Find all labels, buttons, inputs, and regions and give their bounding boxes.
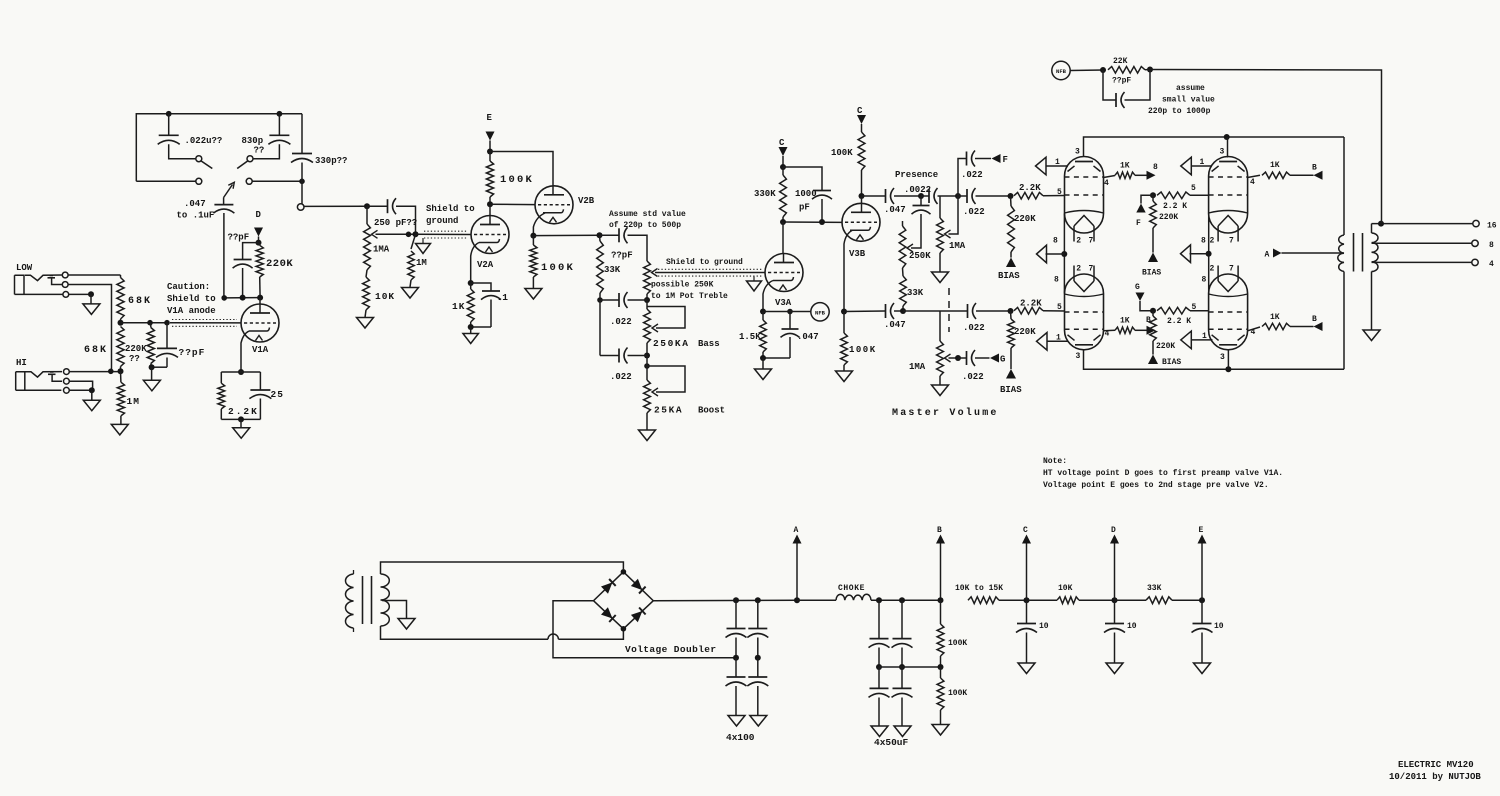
capacitor .047 (lower coupling): [885, 304, 887, 318]
heater arrow (right): [1181, 245, 1191, 263]
capacitor 1000pF: [783, 167, 822, 191]
ground (V1A cathode): [240, 419, 242, 427]
pot 250K (presence): [902, 221, 904, 226]
capacitor ??pF (treble): [600, 234, 620, 236]
svg-text:LOW: LOW: [16, 263, 33, 273]
svg-text:B: B: [937, 526, 942, 535]
svg-text:V2B: V2B: [578, 196, 595, 206]
svg-text:1: 1: [1200, 158, 1205, 167]
wire cathode box bottom: [221, 418, 260, 420]
wire V3B anode to PI: [862, 195, 886, 197]
pot 250KA Bass: [646, 300, 648, 309]
svg-text:5: 5: [1192, 303, 1197, 312]
svg-text:.022: .022: [961, 170, 983, 180]
ground (220K/??pF): [151, 367, 153, 380]
wire cathode to NFB: [763, 311, 811, 313]
capacitor 4x50uF c: [878, 667, 880, 688]
wire cathode box bottom + ground: [471, 326, 491, 328]
resistor 2.2K (V1A cathode): [221, 371, 260, 373]
transformer PT secondary: [381, 574, 390, 626]
capacitor .047 (V3A cathode): [789, 312, 791, 330]
svg-text:2.2K: 2.2K: [228, 406, 259, 417]
capacitor .022 (lower out): [967, 304, 969, 318]
resistor 220K (lower middle): [1152, 311, 1154, 316]
node V1A grid row junction: [118, 320, 124, 326]
svg-text:7: 7: [1229, 237, 1234, 246]
choke: [797, 599, 836, 601]
diode D2 (upper right): [631, 579, 642, 590]
input jack LOW: [15, 263, 69, 297]
svg-text:pF: pF: [799, 203, 810, 213]
triode V3B: [842, 196, 880, 259]
svg-text:1K: 1K: [452, 301, 465, 312]
resistor 1M: [120, 371, 122, 382]
frame right edge / OT primary: [1343, 137, 1345, 235]
node V1 coupling (open circle): [297, 204, 304, 211]
wire V2B out: [533, 234, 599, 236]
svg-text:.047: .047: [884, 320, 906, 330]
svg-text:250K: 250K: [909, 251, 931, 261]
svg-text:5: 5: [1191, 184, 1196, 193]
triode V2A: [471, 204, 509, 270]
resistor 1K (V7 screen): [1248, 327, 1260, 331]
capacitor ??pF (input): [166, 323, 168, 349]
wire LOW tip to 68K: [68, 274, 120, 276]
resistor 10K to 15K: [968, 597, 999, 604]
node bass bottom: [646, 343, 648, 356]
svg-text:1MA: 1MA: [909, 362, 926, 372]
svg-text:.022: .022: [962, 372, 984, 382]
net B arrow (V5 screen): [1147, 326, 1156, 335]
svg-text:100K: 100K: [948, 689, 967, 698]
ground (upper 1MA): [939, 253, 941, 272]
resistor 100K (divider upper): [940, 600, 942, 624]
svg-text:7: 7: [1089, 237, 1094, 246]
svg-text:220K: 220K: [1014, 327, 1036, 337]
svg-text:250KA: 250KA: [653, 338, 690, 349]
resistor 1K (V5 screen): [1104, 329, 1116, 332]
frame anode bus top: [1084, 137, 1345, 157]
node 33K/treble bottom: [597, 297, 603, 303]
svg-text:Bass: Bass: [698, 339, 720, 349]
svg-text:V1A anode: V1A anode: [167, 306, 216, 316]
svg-text:830p: 830p: [242, 136, 264, 146]
svg-text:F: F: [1003, 155, 1008, 165]
power tube V6 (upper right): [1201, 137, 1248, 246]
shield dots (V3A grid): [658, 268, 762, 270]
svg-text:D: D: [256, 210, 262, 220]
svg-text:.022: .022: [610, 317, 632, 327]
ground (E cap): [1194, 663, 1211, 674]
svg-text:68K: 68K: [84, 345, 108, 356]
capacitor 4x50uF b: [901, 600, 903, 638]
resistor 33K (slope): [599, 235, 602, 241]
svg-text:small value: small value: [1162, 96, 1215, 105]
svg-text:16: 16: [1487, 222, 1497, 231]
svg-text:1: 1: [1055, 158, 1060, 167]
capacitor ??pF (V1A anode bypass): [243, 243, 259, 260]
node V2A anode: [487, 201, 493, 207]
pot 25KA Boost: [646, 356, 648, 381]
bridge rectifier: [594, 569, 654, 632]
wire HI ring+sleeve to ground: [69, 381, 92, 390]
node lower middle junction: [1150, 308, 1156, 314]
resistor 2.2K (lower grid stopper): [1014, 307, 1043, 314]
resistor 100K (V3B anode): [858, 132, 865, 170]
svg-text:B: B: [1146, 316, 1151, 325]
svg-text:220K: 220K: [1156, 342, 1175, 351]
svg-text:1000: 1000: [795, 189, 817, 199]
ground (C cap): [1018, 663, 1035, 674]
svg-text:G: G: [1000, 355, 1005, 365]
svg-text:10/2011 by NUTJOB: 10/2011 by NUTJOB: [1389, 772, 1481, 782]
svg-text:V1A: V1A: [252, 345, 269, 355]
svg-text:1K: 1K: [1270, 161, 1280, 170]
wire PT top to bridge: [381, 562, 624, 574]
resistor 2.2K (lower right grid): [1157, 307, 1190, 314]
ground (divider): [932, 725, 949, 736]
svg-text:4: 4: [1104, 179, 1109, 188]
frame anode bus bottom: [1084, 350, 1345, 369]
net B arrow (V6 screen): [1314, 171, 1323, 180]
svg-text:??pF: ??pF: [179, 347, 206, 358]
net D node: [1079, 599, 1115, 601]
capacitor 4x100 a: [735, 600, 737, 628]
capacitor 10 (C node): [1026, 600, 1028, 623]
svg-text:1K: 1K: [1270, 313, 1280, 322]
node lower gang: [955, 355, 961, 361]
heater link left column: [1063, 214, 1065, 294]
wire top rail of switch network: [136, 114, 302, 182]
ground (lower 1MA): [939, 376, 941, 385]
power tube V5 (lower left): [1054, 265, 1104, 362]
OT secondary: [1371, 224, 1373, 233]
svg-text:4: 4: [1251, 328, 1256, 337]
ground (1M grid leak): [402, 288, 419, 299]
wire V2B cathode: [533, 213, 545, 236]
resistor 2.2K (upper right grid): [1157, 192, 1190, 199]
capacitor 25 (V1A cathode bypass): [259, 372, 261, 390]
svg-text:10: 10: [1039, 622, 1049, 631]
pin 1 arrow (V4): [1036, 157, 1047, 175]
svg-text:8: 8: [1201, 236, 1206, 245]
svg-text:5: 5: [1057, 188, 1062, 197]
wire V2A anode to V2B grid: [490, 203, 535, 205]
triode V3A: [765, 254, 803, 309]
svg-text:Shield to: Shield to: [426, 204, 475, 214]
net B arrow (V7 screen): [1314, 322, 1323, 331]
node 4x50 midpoint: [876, 664, 882, 670]
svg-text:4: 4: [1105, 330, 1110, 339]
svg-text:.022: .022: [963, 323, 985, 333]
switch contact 2 (upper): [247, 156, 253, 162]
power tube V7 (lower right): [1202, 265, 1248, 370]
resistor 2.2K (upper grid stopper): [1014, 192, 1043, 199]
svg-text:330p??: 330p??: [315, 156, 347, 166]
pot 1MA (master volume upper): [939, 196, 941, 218]
node V3B anode: [859, 193, 865, 199]
capacitor .022 (to G): [958, 357, 967, 359]
svg-text:220K: 220K: [1159, 213, 1178, 222]
svg-text:CHOKE: CHOKE: [838, 584, 865, 593]
resistor 100K (V2B cathode): [532, 236, 534, 245]
wire PT bottom bus: [381, 626, 549, 639]
wire LOW ring to HI row: [68, 285, 111, 372]
svg-text:33K: 33K: [604, 265, 621, 275]
svg-text:C: C: [1023, 526, 1028, 535]
svg-text:A: A: [794, 526, 799, 535]
svg-text:3: 3: [1220, 148, 1225, 157]
triode V2B: [535, 186, 595, 224]
svg-text:100K: 100K: [948, 639, 967, 648]
wire V1A anode row: [224, 297, 260, 299]
ground (4x50uF): [871, 726, 888, 737]
resistor 100K (V2A anode): [489, 152, 491, 162]
svg-text:2: 2: [1076, 265, 1081, 274]
svg-text:22K: 22K: [1113, 57, 1128, 66]
PT core: [362, 576, 364, 624]
svg-text:A: A: [1265, 251, 1270, 260]
svg-text:1M: 1M: [127, 396, 140, 407]
wire V2A grid: [416, 233, 472, 235]
svg-text:10: 10: [1214, 622, 1224, 631]
svg-text:to 1M Pot Treble: to 1M Pot Treble: [651, 292, 728, 301]
svg-text:ELECTRIC MV120: ELECTRIC MV120: [1398, 760, 1474, 770]
svg-text:33K: 33K: [907, 288, 924, 298]
capacitor 4x50uF d: [901, 667, 903, 688]
OT core: [1353, 233, 1355, 272]
svg-text:.0022: .0022: [904, 185, 931, 195]
capacitor .0022: [921, 195, 929, 197]
net G arrow: [990, 354, 999, 363]
svg-text:3: 3: [1220, 353, 1225, 362]
svg-text:4: 4: [1489, 260, 1494, 269]
svg-text:220K: 220K: [1014, 214, 1036, 224]
svg-text:4x50uF: 4x50uF: [874, 737, 909, 748]
wire 33K leg down: [599, 300, 601, 356]
capacitor 4x100 d: [757, 658, 759, 677]
wire HI tip to grid row: [69, 371, 120, 373]
capacitor .1 (V2A cathode bypass): [471, 283, 491, 291]
net 8 arrow (V4 screen): [1147, 171, 1156, 180]
wire V2A cathode: [471, 243, 479, 284]
resistor 330K: [782, 167, 784, 175]
resistor 10K: [1027, 599, 1058, 601]
svg-text:Note:: Note:: [1043, 457, 1067, 466]
ground (volume tail): [357, 318, 374, 329]
svg-text:3: 3: [1076, 352, 1081, 361]
svg-text:8: 8: [1202, 276, 1207, 285]
capacitor .022 (upper out): [958, 195, 967, 197]
diode D3 (lower left): [601, 607, 613, 618]
capacitor 330p??: [301, 114, 303, 154]
capacitor .022 (bass): [600, 299, 619, 301]
wire lower switch rail right: [252, 180, 302, 182]
resistor 1.5K: [762, 312, 764, 321]
svg-text:8: 8: [1153, 163, 1158, 172]
svg-text:.022u??: .022u??: [185, 136, 223, 146]
ground (OT secondary): [1363, 330, 1380, 341]
node presence tap: [918, 193, 924, 199]
svg-text:1MA: 1MA: [949, 241, 966, 251]
PT centre tap ground: [382, 601, 407, 619]
svg-text:NFB: NFB: [815, 310, 826, 317]
capacitor 10 (E node): [1201, 600, 1203, 623]
ground (boost pot): [646, 413, 648, 430]
node lower presence chain: [900, 308, 906, 314]
svg-text:25: 25: [271, 389, 284, 400]
resistor 220K (lower bias feed): [1010, 311, 1013, 319]
svg-text:B: B: [1312, 315, 1317, 324]
capacitor 250pF?? (bright cap): [367, 205, 388, 207]
resistor 220K ??: [150, 323, 152, 328]
svg-text:100K: 100K: [849, 345, 877, 355]
wire E node to V2B anode: [490, 152, 553, 186]
svg-text:??pF: ??pF: [1112, 77, 1131, 86]
svg-text:33K: 33K: [1147, 584, 1162, 593]
svg-text:V3A: V3A: [775, 298, 792, 308]
node lower grid junction: [1008, 308, 1014, 314]
input jack HI: [16, 358, 70, 393]
svg-text:V2A: V2A: [477, 260, 494, 270]
wire B+ bus: [653, 599, 797, 602]
svg-text:2.2K: 2.2K: [1020, 299, 1042, 309]
svg-text:E: E: [487, 113, 493, 123]
capacitor 4x100 c: [735, 658, 737, 677]
svg-text:7: 7: [1089, 265, 1094, 274]
svg-text:.047: .047: [884, 205, 906, 215]
svg-text:2: 2: [1210, 237, 1215, 246]
svg-text:ground: ground: [426, 216, 458, 226]
resistor 1M (V2A grid leak): [411, 234, 416, 249]
svg-text:.1: .1: [497, 292, 509, 303]
svg-text:1M: 1M: [416, 258, 427, 268]
svg-text:E: E: [1199, 526, 1204, 535]
svg-text:Presence: Presence: [895, 170, 938, 180]
svg-text:possible 250K: possible 250K: [651, 281, 714, 290]
svg-text:Shield to: Shield to: [167, 294, 216, 304]
svg-text:Assume std value: Assume std value: [609, 210, 686, 219]
wire V1A cathode: [241, 331, 249, 372]
node V2A grid: [413, 231, 419, 237]
capacitor 4x100 b: [757, 600, 759, 628]
diode D4 (lower right): [631, 611, 643, 622]
svg-text:8: 8: [1053, 236, 1058, 245]
capacitor .047 to .1uF (wiper): [223, 198, 225, 205]
svg-text:7: 7: [1229, 265, 1234, 274]
ground (D cap): [1106, 663, 1123, 674]
triode V1A: [241, 298, 279, 355]
svg-text:??pF: ??pF: [611, 251, 633, 261]
svg-text:??pF: ??pF: [228, 233, 250, 243]
svg-text:C: C: [779, 138, 785, 148]
node upper gang: [955, 193, 961, 199]
svg-text:.047: .047: [184, 199, 206, 209]
wire coupling node to volume pot: [304, 205, 367, 207]
resistor 68K (lower): [117, 327, 124, 367]
node cathode junction: [238, 369, 244, 375]
svg-text:100K: 100K: [831, 148, 853, 158]
shield dots (V1A grid): [172, 319, 237, 321]
ground (LOW jack): [90, 294, 92, 304]
resistor 100K (V3B cathode): [843, 312, 845, 334]
svg-text:4: 4: [1250, 178, 1255, 187]
svg-text:BIAS: BIAS: [998, 271, 1020, 281]
svg-text:25KA: 25KA: [654, 405, 683, 416]
capacitor 830p??: [278, 114, 280, 136]
svg-text:Boost: Boost: [698, 406, 725, 416]
svg-text:10: 10: [1127, 622, 1137, 631]
pin 1 arrow (V7): [1181, 331, 1192, 349]
svg-text:.047: .047: [797, 332, 819, 342]
svg-text:100K: 100K: [500, 174, 534, 186]
svg-text:3: 3: [1075, 148, 1080, 157]
node NFB (feedback tap): [1052, 61, 1070, 79]
node NFB (V3A cathode): [811, 303, 829, 321]
svg-text:2: 2: [1076, 237, 1081, 246]
wire V1A grid: [170, 322, 241, 324]
wire V3A anode row: [783, 221, 842, 223]
ground (V2A shield): [422, 238, 424, 244]
svg-text:BIAS: BIAS: [1142, 269, 1161, 278]
svg-text:1K: 1K: [1120, 317, 1130, 326]
capacitor 10 (D node): [1114, 600, 1116, 623]
svg-text:Shield to ground: Shield to ground: [666, 258, 743, 267]
capacitor .022 (boost): [600, 355, 619, 357]
resistor 33K (presence chain): [902, 268, 905, 276]
ground (1M): [111, 424, 128, 435]
svg-text:F: F: [1136, 219, 1141, 228]
switch contact 1 (upper): [196, 156, 202, 162]
svg-text:1.5K: 1.5K: [739, 332, 761, 342]
wire treble wiper to V3A grid: [655, 272, 765, 274]
pin 1 arrow (V5): [1037, 333, 1048, 351]
net BIAS arrow (upper): [1006, 258, 1016, 268]
net F arrow (tubes): [1141, 195, 1153, 203]
wire lower PI row: [844, 310, 885, 313]
svg-text:2.2 K: 2.2 K: [1163, 202, 1187, 211]
svg-text:HT voltage point D goes to fir: HT voltage point D goes to first preamp …: [1043, 469, 1283, 478]
svg-text:68K: 68K: [128, 296, 152, 307]
svg-text:??: ??: [254, 146, 265, 156]
switch contact 4 (lower right): [246, 178, 252, 184]
svg-text:assume: assume: [1176, 84, 1205, 93]
svg-text:HI: HI: [16, 358, 27, 368]
shield dots (V2A grid): [424, 230, 468, 232]
svg-text:1: 1: [1056, 334, 1061, 343]
svg-text:.022: .022: [963, 207, 985, 217]
voltage doubler return: [553, 601, 736, 658]
ground (V2B cathode): [525, 289, 542, 300]
resistor 220K (upper middle): [1152, 195, 1154, 201]
svg-text:BIAS: BIAS: [1000, 385, 1022, 395]
resistor 33K (supply): [1115, 599, 1147, 601]
node upper middle junction: [1150, 192, 1156, 198]
OT tap 8: [1372, 242, 1472, 244]
svg-text:V3B: V3B: [849, 249, 866, 259]
heater arrow (left): [1037, 245, 1047, 263]
wire cathode bottom + ground: [763, 357, 790, 359]
svg-text:10K: 10K: [375, 291, 395, 302]
wire lower row to caps: [940, 310, 967, 312]
node upper grid junction: [1008, 193, 1014, 199]
capacitor .047 (upper coupling): [885, 189, 887, 203]
svg-text:1: 1: [1202, 332, 1207, 341]
svg-text:D: D: [1111, 526, 1116, 535]
svg-text:BIAS: BIAS: [1162, 358, 1181, 367]
svg-text:Voltage point E goes to 2nd st: Voltage point E goes to 2nd stage pre va…: [1043, 481, 1269, 490]
svg-text:.022: .022: [610, 372, 632, 382]
